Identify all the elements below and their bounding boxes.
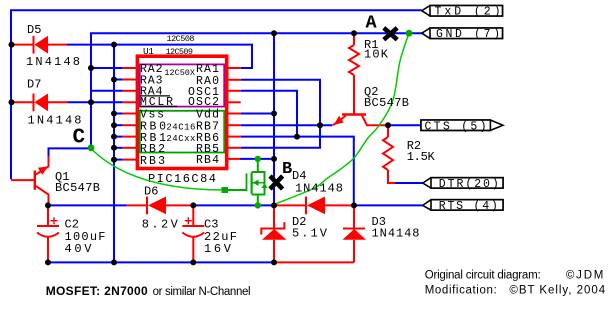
svg-text:©BT Kelly, 2004: ©BT Kelly, 2004 bbox=[509, 285, 605, 297]
svg-text:12C50X: 12C50X bbox=[164, 68, 195, 78]
svg-text:1N4148: 1N4148 bbox=[372, 226, 420, 240]
svg-text:MCLR: MCLR bbox=[140, 96, 173, 109]
svg-text:GND (7): GND (7) bbox=[436, 28, 500, 41]
svg-text:RB4: RB4 bbox=[196, 154, 219, 167]
svg-text:5.1V: 5.1V bbox=[292, 226, 328, 240]
svg-text:D7: D7 bbox=[27, 78, 41, 92]
svg-text:12C509: 12C509 bbox=[166, 47, 194, 57]
svg-text:1N4148: 1N4148 bbox=[295, 182, 343, 196]
svg-text:40V: 40V bbox=[65, 242, 93, 256]
svg-text:MOSFET: 2N7000: MOSFET: 2N7000 bbox=[46, 284, 148, 298]
svg-text:1.5K: 1.5K bbox=[407, 150, 436, 164]
svg-text:12C508: 12C508 bbox=[167, 34, 195, 44]
svg-text:8.2V: 8.2V bbox=[142, 218, 179, 232]
svg-text:24C16: 24C16 bbox=[166, 122, 195, 132]
svg-text:A: A bbox=[366, 12, 378, 33]
svg-text:RB3: RB3 bbox=[140, 155, 165, 168]
svg-text:C: C bbox=[73, 127, 86, 150]
svg-text:24Cxx: 24Cxx bbox=[166, 134, 195, 144]
svg-text:BC547B: BC547B bbox=[55, 181, 100, 195]
svg-text:BC547B: BC547B bbox=[364, 96, 409, 110]
svg-text:B: B bbox=[282, 160, 292, 179]
svg-text:CTS (5): CTS (5) bbox=[425, 120, 487, 133]
svg-text:RTS (4): RTS (4) bbox=[439, 200, 498, 213]
svg-text:or similar N-Channel: or similar N-Channel bbox=[153, 286, 251, 298]
svg-text:D6: D6 bbox=[144, 185, 158, 199]
svg-text:Original circuit diagram:: Original circuit diagram: bbox=[425, 270, 541, 282]
svg-text:TxD (2): TxD (2) bbox=[435, 6, 501, 19]
svg-text:16V: 16V bbox=[204, 242, 232, 256]
svg-text:OSC2: OSC2 bbox=[188, 96, 219, 109]
svg-text:U1: U1 bbox=[143, 46, 154, 57]
svg-text:DTR(20): DTR(20) bbox=[439, 178, 499, 191]
svg-text:Modification:: Modification: bbox=[425, 285, 497, 297]
svg-text:10K: 10K bbox=[364, 48, 389, 62]
svg-text:©JDM: ©JDM bbox=[566, 270, 604, 282]
svg-text:D5: D5 bbox=[27, 23, 41, 37]
